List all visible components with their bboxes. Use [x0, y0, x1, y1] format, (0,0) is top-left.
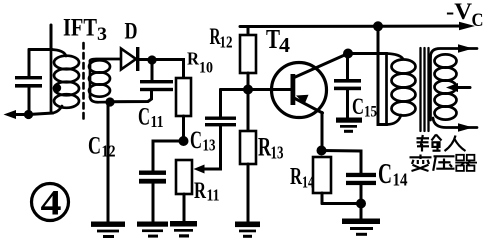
- resistor R14: [313, 157, 331, 204]
- junction dot IFT3 secondary bottom: [105, 97, 114, 106]
- resistor R12: [240, 27, 256, 90]
- svg-text:4: 4: [41, 183, 62, 223]
- ground G5 (C15): [336, 118, 362, 133]
- capacitor C15: [334, 54, 361, 118]
- svg-text:R: R: [187, 49, 200, 69]
- wire stub from previous stage: [50, 25, 53, 50]
- junction dot diode output: [147, 55, 156, 64]
- core IFT3 (dashed): [82, 43, 85, 121]
- svg-text:C: C: [190, 127, 202, 154]
- svg-text:C: C: [352, 94, 364, 119]
- svg-text:R: R: [194, 178, 206, 203]
- wire secondary bottom to C11 bottom: [110, 91, 152, 102]
- wire emitter node to C14: [322, 151, 362, 173]
- svg-text:15: 15: [364, 104, 377, 121]
- transistor T4: [272, 54, 349, 118]
- wire -Vc drop to transformer bottom: [378, 26, 387, 124]
- junction dot top rail: [373, 21, 383, 31]
- svg-text:11: 11: [151, 112, 164, 131]
- ground G3 (R11): [170, 221, 197, 238]
- svg-text:14: 14: [393, 170, 408, 190]
- svg-text:T: T: [266, 24, 280, 54]
- resistor R10: [176, 78, 191, 141]
- arrow output left: [4, 110, 17, 119]
- transformer output primary winding: [387, 54, 416, 125]
- svg-text:3: 3: [97, 24, 107, 45]
- svg-text:C: C: [472, 10, 484, 31]
- transformer IFT3 secondary winding: [89, 59, 121, 102]
- svg-text:14: 14: [302, 173, 314, 192]
- junction dot emitter node: [317, 146, 327, 156]
- resistor R13: [240, 90, 256, 222]
- svg-text:D: D: [125, 19, 138, 44]
- ground G1 (IFT3 secondary): [91, 102, 125, 238]
- svg-text:C: C: [378, 159, 392, 190]
- arrow secondary top: [458, 44, 473, 52]
- capacitor C11: [140, 60, 173, 91]
- wire bottom R14-C14: [322, 202, 361, 205]
- junction dot ground node: [356, 199, 366, 209]
- wire bottom of IFT3 primary: [29, 113, 54, 115]
- ground G2 (C12): [137, 222, 168, 238]
- tap arrow secondary middle: [446, 83, 470, 92]
- svg-text:10: 10: [199, 60, 213, 77]
- tap dot on IFT3 primary: [53, 84, 61, 92]
- svg-text:-V: -V: [446, 0, 472, 24]
- diode D: [121, 47, 139, 71]
- transformer core lines: [421, 48, 429, 131]
- svg-text:C: C: [138, 104, 150, 131]
- ground G6 (R14/C14): [342, 204, 380, 236]
- svg-text:IFT: IFT: [63, 15, 97, 42]
- wire output to previous stage (bottom-left): [14, 113, 29, 116]
- transformer output secondary winding: [431, 49, 478, 128]
- wire collector node to transformer: [348, 52, 387, 55]
- wire to C12: [153, 141, 184, 171]
- wire top of IFT3 primary: [29, 48, 52, 51]
- capacitor C12: [139, 171, 166, 222]
- svg-text:R: R: [258, 133, 271, 162]
- capacitor C14: [346, 173, 376, 204]
- label 输入 (input) hand-drawn: [417, 135, 466, 152]
- wire diode to R10: [139, 60, 184, 79]
- svg-text:11: 11: [207, 186, 220, 205]
- figure number 4 in circle: [32, 183, 69, 223]
- ground G4 (R13): [235, 222, 260, 238]
- svg-text:R: R: [290, 164, 302, 190]
- wire base node: [221, 88, 292, 91]
- svg-text:13: 13: [203, 136, 216, 155]
- label 变压器 (transformer) hand-drawn: [410, 155, 478, 172]
- capacitor IFT3 tuning (unlabeled): [15, 50, 42, 115]
- arrow secondary bottom: [458, 123, 473, 131]
- svg-text:C: C: [88, 133, 101, 160]
- svg-text:4: 4: [279, 33, 291, 57]
- resistor R11 (variable): [176, 160, 192, 221]
- wire emitter down: [321, 113, 324, 151]
- svg-text:12: 12: [102, 142, 116, 161]
- top rail -Vc: [240, 25, 468, 29]
- capacitor C13: [205, 90, 236, 127]
- junction dot left cap bottom: [24, 110, 33, 119]
- wiper arrow into R11: [194, 126, 221, 173]
- junction dot base node: [243, 85, 253, 95]
- arrow -Vc: [459, 22, 475, 30]
- svg-text:12: 12: [220, 33, 233, 52]
- transformer IFT3 primary winding: [51, 50, 79, 114]
- junction dot R10/R11/C12: [179, 136, 189, 146]
- svg-text:13: 13: [271, 143, 284, 163]
- junction dot collector node: [343, 49, 353, 59]
